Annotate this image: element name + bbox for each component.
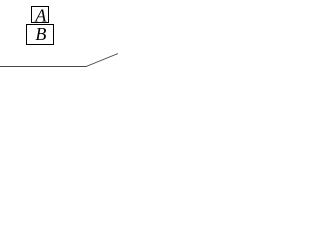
node A (box) (32, 6, 49, 26)
svg-text:A: A (34, 6, 47, 26)
svg-text:B: B (35, 24, 46, 44)
background (0, 0, 118, 97)
node B (box) (27, 24, 54, 45)
wire: edge entering from right, bending left across page (0, 54, 118, 67)
